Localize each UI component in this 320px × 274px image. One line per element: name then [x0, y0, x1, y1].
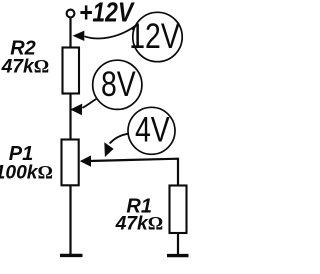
- potentiometer P1 body: [62, 140, 79, 186]
- annotation circle 12V: [133, 12, 182, 61]
- terminal +12V: [67, 10, 75, 18]
- wire terminal to R2: [69, 17, 71, 48]
- wiper wire to R1: [89, 159, 178, 186]
- svg-text:100kΩ: 100kΩ: [0, 163, 53, 184]
- wiper arrow of P1: [80, 155, 91, 166]
- svg-text:47kΩ: 47kΩ: [1, 57, 50, 78]
- annotation circle 4V: [128, 107, 175, 154]
- svg-text:8V: 8V: [101, 64, 136, 104]
- arrow 8V to R2-P1 node: [83, 98, 98, 107]
- resistor R2: [63, 48, 80, 94]
- annotation circle 8V: [93, 60, 142, 109]
- arrow 12V to supply node: [85, 26, 136, 39]
- resistor R1: [170, 186, 187, 234]
- wire P1 to ground: [69, 185, 71, 254]
- ground bar under P1: [60, 254, 83, 257]
- wire R2 to P1: [69, 94, 71, 141]
- svg-text:+12V: +12V: [79, 0, 135, 28]
- arrow 4V to wiper: [110, 134, 129, 144]
- svg-text:4V: 4V: [135, 110, 170, 150]
- ground bar under R1: [167, 254, 189, 257]
- wire R1 to ground: [177, 233, 179, 255]
- svg-text:47kΩ: 47kΩ: [115, 214, 164, 235]
- svg-text:12V: 12V: [129, 16, 180, 56]
